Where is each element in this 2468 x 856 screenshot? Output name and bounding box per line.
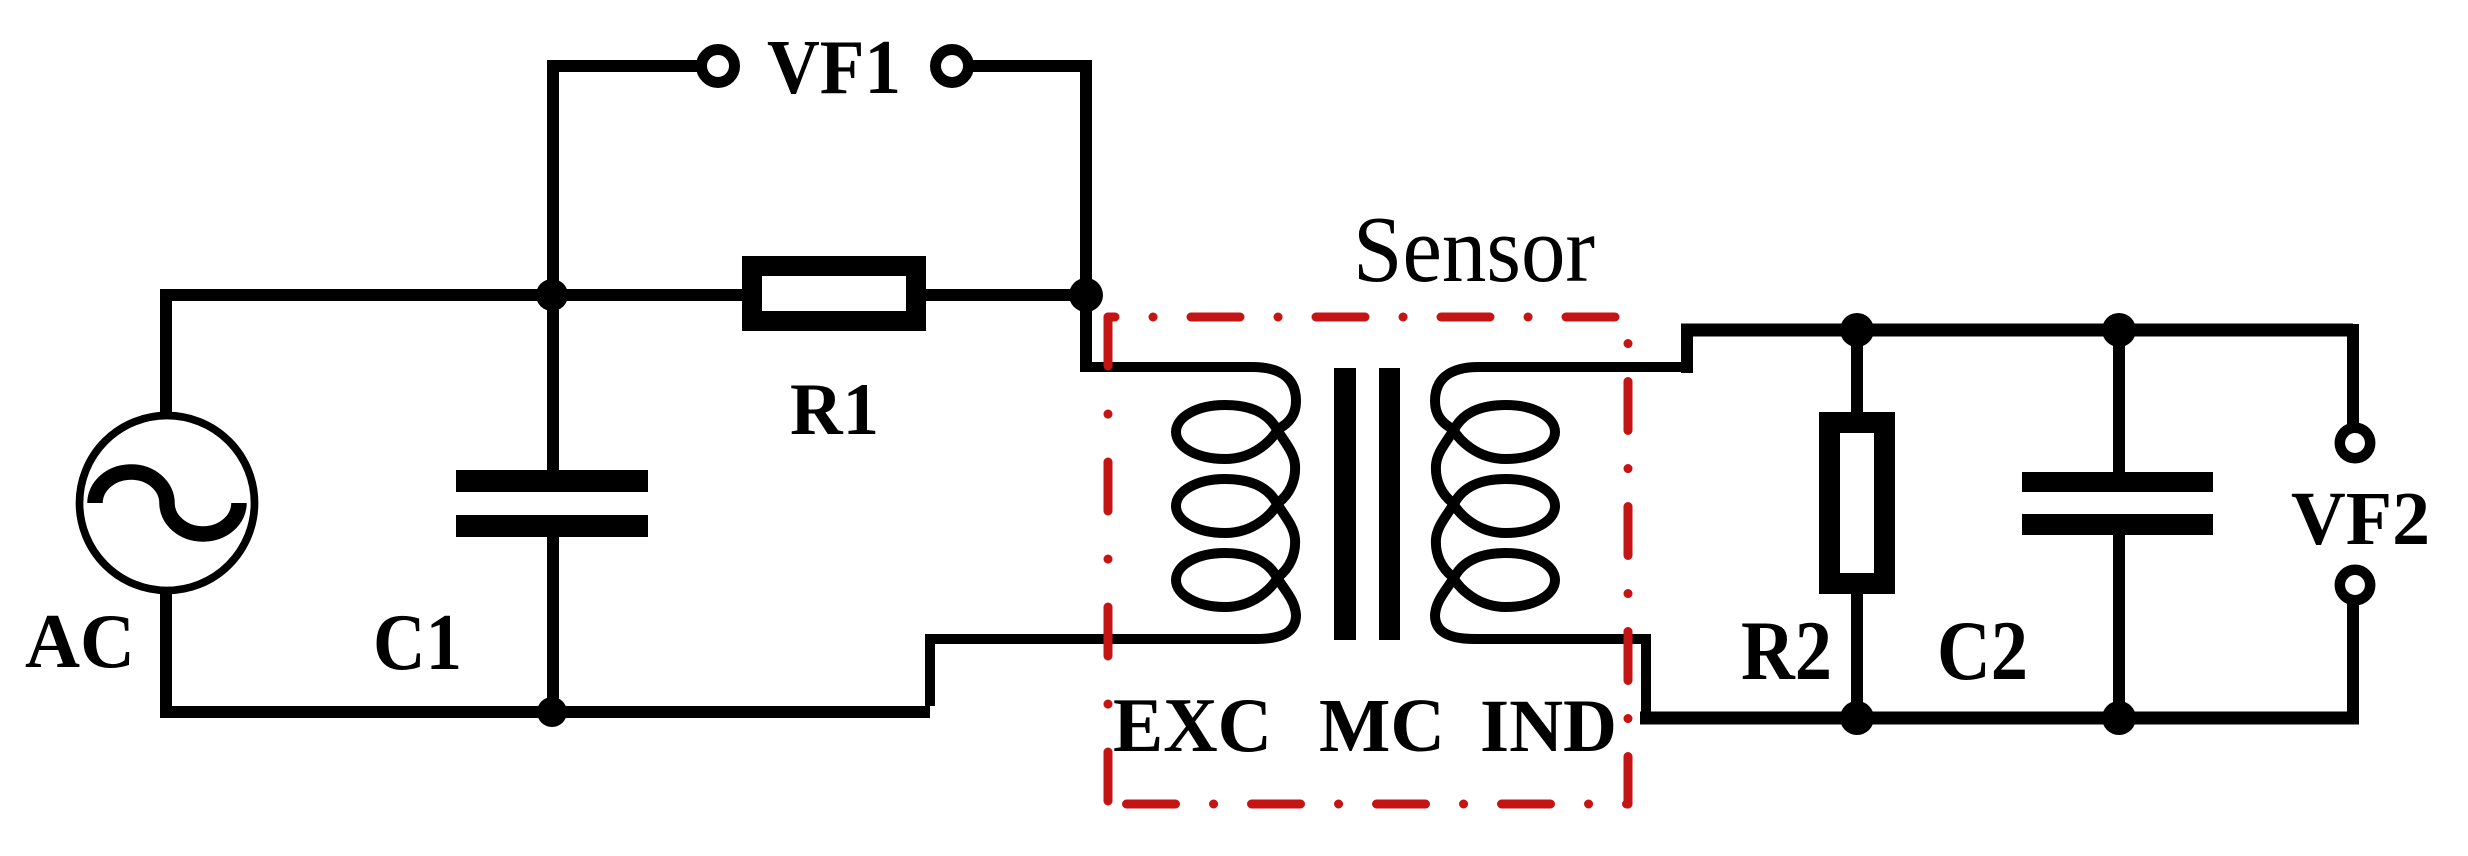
svg-text:AC: AC — [25, 598, 135, 684]
svg-text:C2: C2 — [1937, 604, 2028, 698]
svg-text:MC: MC — [1319, 684, 1445, 768]
svg-text:VF1: VF1 — [767, 24, 901, 110]
svg-text:IND: IND — [1480, 685, 1617, 768]
svg-text:C1: C1 — [373, 599, 462, 687]
svg-text:Sensor: Sensor — [1353, 198, 1595, 302]
svg-text:R2: R2 — [1741, 604, 1832, 698]
svg-text:EXC: EXC — [1113, 682, 1272, 768]
svg-text:R1: R1 — [790, 369, 879, 451]
svg-text:VF2: VF2 — [2291, 477, 2430, 561]
